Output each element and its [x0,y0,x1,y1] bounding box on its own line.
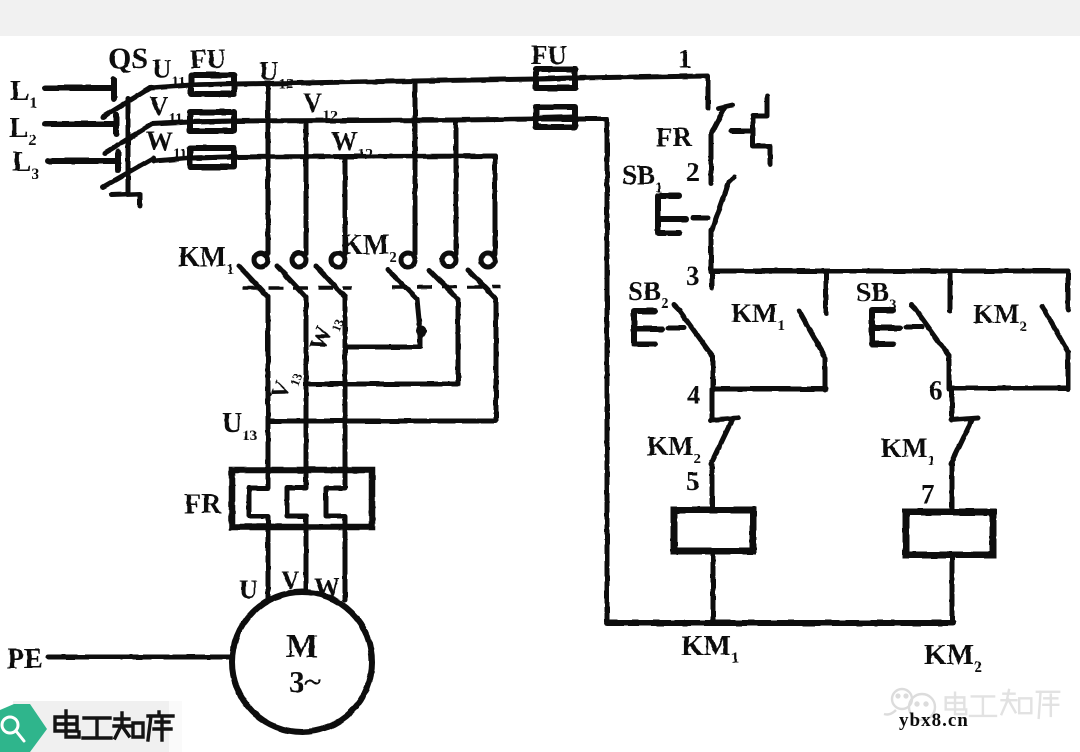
wire control return vertical [605,119,610,623]
wire KM2 pole3 to U13 [268,299,496,421]
wire phase V bus [152,119,606,124]
wire node1 corner down [707,76,708,108]
node 4 label [687,380,701,410]
wire V12 drop to KM1 [304,121,309,254]
watermark green tag [0,704,47,752]
KM1 linkage dashes [243,286,352,290]
SB2 button cap [634,311,662,344]
wire node 3 bus [711,269,1068,274]
wire SB2 to node4 [711,357,716,390]
label W12 [331,126,373,162]
wire L1 [45,85,112,91]
label PE [7,644,43,675]
svg-text:2: 2 [686,157,700,187]
wire V to motor [304,527,309,594]
KM1 main contact 2 [277,253,306,297]
fuse FU (main) label [190,44,226,74]
SB1 blade [712,177,734,230]
svg-text:FR: FR [656,122,692,152]
wire SB1 to node3 [709,230,714,272]
label FR (heater box) [184,489,222,520]
SB3 dash [906,325,922,330]
node L3 [12,146,39,183]
label V13 (rotated) [266,365,305,405]
fuse FU control pole 2 [536,107,575,127]
junction dot pole1 [416,326,427,337]
svg-text:KM1: KM1 [178,242,234,278]
label KM2 (interlock) [647,431,701,467]
wire U12 drop to KM2 [413,81,418,254]
SB2 dash [668,326,684,331]
wire to KM2 coil [950,464,955,512]
label V11 [149,91,183,127]
contact KM2 aux label [973,299,1027,335]
motor M text [286,628,321,699]
FR contact blade [711,107,725,134]
label V12 [303,88,338,124]
QS terminal tick 2 [113,115,119,134]
FR heater element 2 [287,471,306,527]
label U (motor) [239,575,258,604]
SB3 blade [911,305,949,356]
wire W12 drop to KM1 [343,157,348,254]
svg-text:FU: FU [190,44,226,74]
contactor KM2 main label [341,230,397,266]
node 1 label [678,44,692,74]
svg-text:KM2: KM2 [647,431,701,467]
KM1 aux stub [824,271,829,313]
wire FR to SB1 [709,134,714,183]
contact KM1 NC interlock [951,388,978,464]
FR heater element 1 [249,471,268,527]
svg-text:FU: FU [531,40,567,70]
KM2 main contact 1 [388,253,417,299]
KM2 linkage dashes [392,285,500,289]
svg-text:KM1: KM1 [881,433,935,469]
svg-text:V13: V13 [266,365,305,405]
svg-text:3: 3 [686,261,700,291]
contact KM1 aux label [731,298,785,334]
svg-text:M: M [286,628,318,665]
svg-text:4: 4 [687,380,701,410]
QS terminal tick 1 [111,79,117,99]
coil KM2 [906,512,993,555]
fuse FU control pole 1 [536,69,575,88]
node 2 label [686,157,700,187]
label W (motor) [314,573,340,602]
label KM2 (coil bottom) [924,639,982,676]
FR contact tick [719,105,732,108]
QS blade pole 1 [103,88,150,117]
label KM1 (interlock) [881,433,935,469]
svg-text:ybx8.cn: ybx8.cn [899,710,969,731]
wire L2 [45,121,114,127]
watermark text dian-gong-zhi-ku (faint gray) [946,690,1059,718]
motor M circle [232,592,372,732]
wire L3 [48,158,116,164]
KM2 main contact 2 [429,253,458,299]
label U11 [152,54,186,90]
node L1 [10,75,37,112]
KM1 main contact 3 [316,253,345,297]
wire control bottom bus [607,620,953,626]
KM2 main contact 3 [468,253,496,299]
watermark text dian-gong-zhi-ku (black) [55,711,173,740]
SB1 button cap [658,196,686,233]
wire V13 vertical [304,297,309,471]
wire SB3 to node6 [947,356,952,389]
wire PE [48,655,233,660]
FR driver element [753,96,770,164]
KM2 aux stub [1066,271,1071,310]
QS linkage bar [126,98,131,194]
wire KM1 coil down [711,551,716,623]
pushbutton SB3 label [856,277,897,313]
fuse FU pole 2 [190,112,234,131]
watermark smileys (faint) [884,689,935,720]
watermark text ybx8.cn [899,710,969,731]
wire control return top [575,117,606,122]
wire to KM1 coil [710,464,715,510]
svg-text:L2: L2 [9,112,36,149]
KM1 aux blade [799,311,825,357]
wire phase W bus [154,156,495,161]
wire W12 drop to KM2 [493,156,498,254]
svg-text:L3: L3 [12,146,39,183]
pushbutton SB2 label [628,276,669,312]
contact KM2 NC interlock [711,390,738,464]
wire node 4 [712,387,826,392]
svg-text:1: 1 [678,44,692,74]
switch QS label [108,42,148,75]
node L2 [9,112,36,149]
wire KM1 aux to node4 [823,357,828,390]
label W13 (rotated) [305,310,347,356]
node 5 label [686,466,700,496]
label KM1 (coil bottom) [681,630,739,667]
watermark magnifier icon [2,717,24,741]
wire U to motor [266,527,271,600]
node 3 label [686,261,700,291]
svg-text:KM2: KM2 [341,230,397,266]
SB1 dash [693,216,708,221]
svg-text:W13: W13 [305,310,347,356]
fuse FU (control) label [531,40,567,70]
svg-text:U12: U12 [259,56,294,92]
contactor KM1 main label [178,242,234,278]
coil KM1 [674,510,753,551]
svg-text:KM1: KM1 [731,298,785,334]
pushbutton SB1 label [622,160,663,196]
wire phase U bus [150,76,707,88]
SB2 blade [674,305,713,357]
wire W13 vertical [343,297,348,471]
svg-text:SB2: SB2 [628,276,669,312]
wire KM2 coil down [950,555,955,623]
node 7 label [921,479,935,509]
svg-text:5: 5 [686,466,700,496]
svg-text:6: 6 [929,375,943,405]
svg-text:3~: 3~ [289,664,321,699]
label U12 [259,56,294,92]
QS blade pole 3 [103,158,154,187]
fuse FU pole 3 [190,148,234,167]
wire W to motor [343,527,348,600]
SB2 stub [710,271,715,288]
wire KM2 pole1 to W13 [346,299,420,347]
wire node 6 [950,386,1068,391]
svg-text:PE: PE [7,644,43,675]
label U13 [222,408,257,444]
svg-text:KM1: KM1 [681,630,739,667]
svg-text:U13: U13 [222,408,257,444]
SB3 stub [948,271,953,311]
svg-text:SB1: SB1 [622,160,663,196]
label V (motor) [281,566,300,595]
QS blade pole 2 [105,124,152,153]
wire U13 vertical [266,297,271,471]
fuse FU pole 1 [191,75,234,94]
svg-text:U: U [239,575,258,604]
svg-text:KM2: KM2 [973,299,1027,335]
QS handle [111,194,140,206]
watermark gray box [13,701,182,752]
top gray band [0,0,1080,36]
label W11 [146,126,187,162]
node 6 label [929,375,943,405]
thermal relay FR heater box [232,470,372,527]
svg-text:KM2: KM2 [924,639,982,676]
wire U12 drop to KM1 [266,84,271,254]
wire KM2 pole2 to V13 [307,299,458,384]
FR heater element 3 [326,471,345,527]
FR link bar [731,129,752,134]
svg-text:QS: QS [108,42,148,75]
svg-text:FR: FR [184,489,222,520]
wire V12 drop to KM2 [454,120,459,254]
svg-text:7: 7 [921,479,935,509]
wire KM2 aux to node6 [1066,352,1071,389]
KM1 main contact 1 [239,253,268,297]
label FR (contact) [656,122,692,152]
QS terminal tick 3 [115,152,121,170]
svg-text:L1: L1 [10,75,37,112]
SB3 button cap [872,310,900,344]
KM2 aux blade [1042,306,1068,352]
